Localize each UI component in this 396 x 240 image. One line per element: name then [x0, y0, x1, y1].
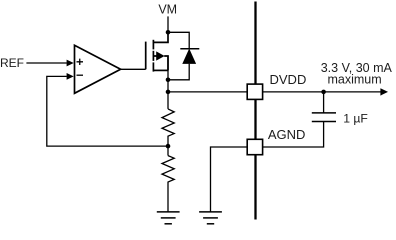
arrowhead 3.3V output [380, 88, 388, 95]
pin AGND (terminal box) [247, 139, 262, 154]
wire REF input to op-amp non-inverting input, with arrowhead [26, 62, 66, 64]
ground (below resistor R2) [157, 212, 180, 224]
gate bar [145, 42, 147, 70]
transistor Q1 (NMOS) [146, 32, 168, 71]
wire DVDD node to DVDD pin [168, 91, 247, 93]
wire capacitor top lead [323, 92, 325, 113]
wire VM node to diode cathode [168, 32, 189, 49]
wire op-amp output to gate of Q1 [121, 68, 146, 70]
svg-text:AGND: AGND [268, 127, 306, 142]
wire source node down through DVDD node [167, 56, 169, 109]
source stub [153, 69, 168, 71]
bus line (device edge) [254, 2, 256, 220]
node A (resistor divider midpoint) dot [166, 144, 171, 149]
diode D1 (body diode, cathode up) [180, 49, 199, 64]
op-amp U1 [75, 45, 121, 93]
wire AGND pin to ground [211, 147, 248, 212]
node VM junction dot [166, 30, 171, 35]
capacitor C1 [312, 113, 336, 122]
pin DVDD (terminal box) [247, 84, 262, 99]
wire DVDD pin to output arrow [263, 91, 381, 93]
wire feedback from node A to op-amp inverting input, with arrowhead [47, 76, 168, 146]
drain stub [153, 32, 168, 42]
svg-text:DVDD: DVDD [270, 72, 307, 87]
wire VM supply lead [167, 16, 169, 32]
svg-text:REF: REF [0, 56, 24, 70]
svg-text:1 µF: 1 µF [343, 111, 368, 125]
node DVDD junction dot [166, 90, 171, 95]
wire node A [167, 144, 169, 156]
resistor R2 [162, 156, 174, 212]
wire capacitor bottom lead to AGND wire [263, 122, 324, 148]
node diode/source junction dot [166, 78, 171, 83]
body stub with arrow [153, 56, 168, 70]
svg-text:VM: VM [158, 2, 177, 16]
resistor R1 [162, 109, 174, 144]
wire diode anode down to node [168, 64, 189, 80]
node capacitor junction dot [321, 90, 326, 95]
body arrow of Q1 [156, 51, 164, 60]
ground (AGND) [199, 212, 222, 224]
channel segments [152, 40, 154, 50]
svg-text:maximum: maximum [328, 73, 382, 87]
